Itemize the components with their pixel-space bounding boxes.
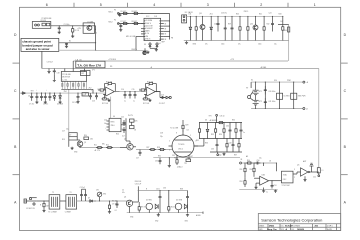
svg-text:D11: D11	[189, 14, 192, 16]
svg-text:C34: C34	[229, 143, 232, 145]
svg-text:JP2: JP2	[92, 70, 95, 72]
svg-text:TCXO 14M: TCXO 14M	[282, 185, 291, 187]
svg-text:P4: P4	[114, 20, 116, 22]
svg-text:B2: B2	[82, 73, 84, 75]
svg-text:C3 100n: C3 100n	[64, 24, 70, 26]
svg-text:MIC2: MIC2	[109, 22, 113, 24]
svg-text:T.A. OU Rev 17A: T.A. OU Rev 17A	[77, 63, 102, 67]
svg-text:R16 22K: R16 22K	[147, 81, 154, 83]
svg-text:2N66: 2N66	[269, 226, 275, 228]
svg-text:REF: REF	[162, 42, 165, 44]
svg-text:U1: U1	[148, 85, 150, 87]
svg-text:R37: R37	[234, 155, 237, 157]
svg-text:VCA EXP: VCA EXP	[145, 27, 153, 30]
svg-text:C40 100n: C40 100n	[268, 91, 275, 93]
svg-text:2K2: 2K2	[89, 87, 92, 89]
svg-text:R25: R25	[135, 121, 138, 123]
svg-text:THD 8: THD 8	[145, 38, 150, 40]
svg-text:R29: R29	[186, 125, 189, 127]
svg-text:TP2: TP2	[31, 91, 34, 93]
svg-text:D1 RED: D1 RED	[146, 200, 153, 202]
svg-text:+17V BUS: +17V BUS	[108, 59, 117, 61]
svg-text:C15: C15	[132, 89, 135, 91]
svg-text:GN6: GN6	[130, 217, 133, 219]
svg-text:2K2: 2K2	[90, 139, 93, 141]
svg-text:47u: 47u	[122, 192, 125, 194]
svg-text:1u: 1u	[266, 192, 268, 194]
svg-text:C4: C4	[115, 210, 117, 212]
svg-text:Sung Chu: Sung Chu	[267, 229, 278, 231]
svg-text:S-025: S-025	[327, 229, 332, 231]
svg-text:1 OF 1: 1 OF 1	[327, 226, 333, 228]
svg-text:R44: R44	[284, 30, 287, 32]
svg-text:100n: 100n	[221, 43, 225, 45]
svg-text:C30: C30	[155, 161, 158, 163]
svg-text:XTAL: XTAL	[283, 174, 287, 177]
svg-text:TP3: TP3	[209, 116, 212, 118]
svg-text:R6 4K7: R6 4K7	[132, 11, 138, 13]
svg-text:2: 2	[294, 177, 295, 179]
svg-text:XLR-3F: XLR-3F	[40, 20, 46, 22]
svg-text:R34: R34	[219, 134, 222, 136]
svg-text:R22: R22	[106, 144, 109, 146]
svg-text:GN2: GN2	[155, 220, 158, 222]
svg-text:R8 4K7: R8 4K7	[132, 21, 138, 23]
svg-text:T3: T3	[70, 192, 72, 194]
svg-text:5: 5	[100, 3, 102, 7]
svg-text:W1: W1	[110, 66, 113, 68]
svg-text:U5 REG: U5 REG	[284, 95, 291, 97]
svg-text:D2 GRN: D2 GRN	[176, 200, 183, 202]
svg-text:R42: R42	[267, 24, 270, 26]
svg-text:Q1 2SK: Q1 2SK	[87, 21, 94, 23]
svg-text:U2: U2	[187, 130, 189, 132]
svg-text:Q4: Q4	[124, 197, 126, 199]
svg-text:78L15: 78L15	[244, 11, 249, 13]
svg-text:DOC: DOC	[281, 225, 284, 227]
svg-text:10u: 10u	[274, 43, 277, 45]
svg-text:16 V+: 16 V+	[156, 188, 160, 190]
svg-text:R10 1K: R10 1K	[171, 207, 177, 209]
svg-text:C28: C28	[160, 133, 163, 135]
svg-text:SIZE: SIZE	[281, 229, 284, 231]
svg-text:1: 1	[314, 3, 316, 7]
svg-text:3: 3	[294, 169, 295, 171]
svg-text:C8 47u: C8 47u	[43, 104, 48, 106]
svg-text:1: 1	[196, 141, 197, 143]
svg-text:C35 1n: C35 1n	[220, 116, 225, 118]
svg-text:C18: C18	[57, 73, 60, 75]
svg-text:R38: R38	[180, 188, 183, 190]
svg-text:FB: FB	[171, 38, 173, 40]
svg-text:2: 2	[190, 135, 191, 137]
svg-text:2NJ: 2NJ	[64, 91, 67, 93]
svg-text:Q5: Q5	[297, 165, 299, 167]
svg-text:R27: R27	[146, 147, 149, 149]
svg-text:J1 MIC IN: J1 MIC IN	[26, 208, 35, 210]
svg-text:T1 CLOSE: T1 CLOSE	[170, 128, 179, 130]
svg-text:R16 22K: R16 22K	[106, 81, 113, 83]
svg-text:R35: R35	[232, 120, 235, 122]
svg-text:FILE: FILE	[291, 229, 294, 231]
svg-text:T1 COMM: T1 COMM	[48, 212, 57, 214]
svg-text:C36: C36	[163, 187, 166, 189]
svg-text:140929: 140929	[297, 228, 305, 231]
svg-text:and also to screw: and also to screw	[26, 47, 50, 51]
svg-text:MUTE SW: MUTE SW	[62, 77, 70, 79]
svg-text:C25: C25	[121, 117, 124, 119]
svg-text:SW1 PWR: SW1 PWR	[298, 95, 306, 97]
svg-text:47u: 47u	[238, 43, 241, 45]
svg-text:C41 100n: C41 100n	[268, 101, 275, 103]
svg-text:+B RAIL: +B RAIL	[260, 66, 266, 69]
svg-text:C9 10u: C9 10u	[72, 102, 77, 104]
svg-text:C6: C6	[28, 96, 30, 98]
svg-text:22p: 22p	[160, 136, 163, 138]
svg-text:+: +	[36, 90, 37, 92]
svg-text:E1: E1	[69, 41, 71, 43]
svg-text:+: +	[91, 90, 92, 92]
svg-text:R33: R33	[211, 134, 214, 136]
svg-text:CA COM: CA COM	[145, 24, 153, 27]
svg-text:C3 2u2: C3 2u2	[80, 187, 85, 189]
svg-text:R19: R19	[62, 139, 65, 141]
svg-text:GN4: GN4	[187, 158, 190, 160]
svg-text:MIC & LINE: MIC & LINE	[126, 36, 136, 38]
svg-text:R52: R52	[250, 169, 253, 171]
svg-text:1u: 1u	[133, 101, 135, 103]
svg-text:R5 4K7: R5 4K7	[121, 11, 127, 13]
svg-text:OUT: OUT	[280, 21, 283, 23]
svg-text:D3: D3	[144, 44, 146, 46]
svg-text:U1: U1	[107, 85, 109, 87]
svg-text:C5: C5	[122, 190, 124, 192]
svg-text:Samson Technologies Corporatio: Samson Technologies Corporation	[261, 218, 322, 223]
svg-text:10u: 10u	[259, 158, 262, 160]
svg-text:J5 OUT: J5 OUT	[159, 103, 166, 105]
svg-text:C33: C33	[211, 149, 214, 151]
svg-text:C21: C21	[214, 24, 217, 26]
svg-text:COMM: COMM	[65, 212, 71, 214]
svg-text:D20: D20	[274, 80, 277, 82]
svg-text:T2: T2	[52, 192, 54, 194]
svg-text:R50: R50	[247, 160, 250, 162]
svg-text:C13: C13	[92, 101, 95, 103]
svg-text:R21: R21	[94, 144, 97, 146]
svg-text:BT2: BT2	[259, 101, 262, 103]
svg-text:+: +	[46, 90, 47, 92]
svg-text:C35: C35	[226, 126, 229, 128]
svg-text:P2 MIC/LINE: P2 MIC/LINE	[42, 18, 53, 20]
svg-text:C32: C32	[172, 155, 175, 157]
svg-text:D4: D4	[159, 43, 161, 45]
svg-text:MIC1: MIC1	[109, 12, 113, 14]
svg-text:R36: R36	[205, 143, 208, 145]
svg-text:OSC 2: OSC 2	[178, 149, 183, 151]
svg-text:VR2: VR2	[103, 193, 106, 195]
svg-text:4: 4	[153, 3, 155, 7]
svg-text:C52: C52	[313, 177, 316, 179]
svg-text:C16: C16	[161, 95, 164, 97]
svg-text:GAIN: GAIN	[145, 30, 150, 33]
svg-text:C7 47u: C7 47u	[29, 104, 34, 106]
svg-text:C50: C50	[257, 160, 260, 162]
svg-text:6: 6	[46, 3, 48, 7]
svg-text:47u: 47u	[205, 43, 208, 45]
svg-text:T1 MOD: T1 MOD	[178, 144, 185, 146]
svg-text:3: 3	[169, 150, 170, 152]
svg-text:100n: 100n	[258, 43, 262, 45]
svg-text:L1: L1	[322, 170, 324, 172]
svg-text:C.A. OU: C.A. OU	[75, 58, 82, 61]
svg-text:ZD1: ZD1	[210, 14, 213, 16]
svg-text:8: 8	[176, 133, 177, 135]
svg-text:Q2: Q2	[84, 142, 86, 144]
svg-text:L7: L7	[69, 135, 71, 137]
svg-text:5: 5	[169, 141, 170, 143]
svg-text:Q10: Q10	[250, 24, 253, 26]
svg-text:R32: R32	[196, 140, 199, 142]
svg-text:P3: P3	[114, 10, 116, 12]
svg-text:S2: S2	[251, 80, 253, 82]
svg-text:C26: C26	[121, 129, 124, 131]
svg-text:R39: R39	[228, 24, 231, 26]
svg-text:1 2 3 4: 1 2 3 4	[62, 79, 67, 81]
svg-text:TP1: TP1	[184, 163, 187, 165]
svg-text:R20: R20	[84, 135, 87, 137]
svg-text:C24: C24	[269, 13, 272, 15]
svg-text:4u7: 4u7	[122, 136, 125, 138]
svg-text:R51: R51	[240, 169, 243, 171]
svg-text:R17 10K: R17 10K	[143, 103, 150, 105]
svg-text:+B 17V: +B 17V	[94, 150, 101, 152]
svg-text:U1 F: U1 F	[83, 94, 86, 96]
svg-text:U4: U4	[113, 116, 115, 118]
svg-text:78L0: 78L0	[111, 125, 115, 127]
svg-text:R28: R28	[157, 147, 160, 149]
svg-text:4K7: 4K7	[190, 156, 193, 158]
svg-text:D7: D7	[88, 198, 90, 200]
svg-text:BT1: BT1	[259, 91, 262, 93]
svg-text:C24: C24	[104, 120, 107, 122]
svg-text:R7 4K7: R7 4K7	[121, 21, 127, 23]
svg-text:2: 2	[260, 3, 262, 7]
svg-text:R24: R24	[116, 134, 119, 136]
svg-text:R40: R40	[236, 14, 239, 16]
svg-text:R43: R43	[279, 14, 282, 16]
svg-text:RY1 B-SEL: RY1 B-SEL	[62, 74, 71, 76]
svg-text:3: 3	[207, 3, 209, 7]
svg-text:R17 10K: R17 10K	[102, 103, 109, 105]
svg-text:1u: 1u	[124, 101, 126, 103]
svg-text:R15: R15	[98, 89, 101, 91]
svg-text:R41: R41	[259, 14, 262, 16]
svg-text:GN5: GN5	[185, 220, 188, 222]
svg-text:R53: R53	[240, 181, 243, 183]
svg-text:REG: REG	[111, 122, 115, 124]
svg-text:100p: 100p	[218, 155, 222, 157]
svg-text:1n: 1n	[243, 132, 245, 134]
svg-text:C17: C17	[62, 131, 65, 133]
svg-text:+B ADJ: +B ADJ	[177, 166, 183, 169]
svg-text:R31: R31	[158, 156, 161, 158]
svg-text:C31 1uF: C31 1uF	[135, 184, 141, 186]
svg-text:C14: C14	[121, 89, 124, 91]
svg-text:C19 4u7: C19 4u7	[47, 62, 53, 64]
svg-text:Q11: Q11	[199, 13, 202, 15]
svg-text:10u: 10u	[66, 129, 69, 131]
svg-text:C27: C27	[136, 158, 139, 160]
svg-text:D6: D6	[205, 120, 207, 122]
svg-text:Q3: Q3	[124, 139, 126, 141]
svg-text:10u: 10u	[104, 123, 107, 125]
svg-text:C23 47u: C23 47u	[221, 13, 227, 15]
svg-text:+: +	[105, 128, 106, 130]
svg-text:C53: C53	[274, 185, 277, 187]
svg-text:GN3: GN3	[74, 152, 77, 154]
